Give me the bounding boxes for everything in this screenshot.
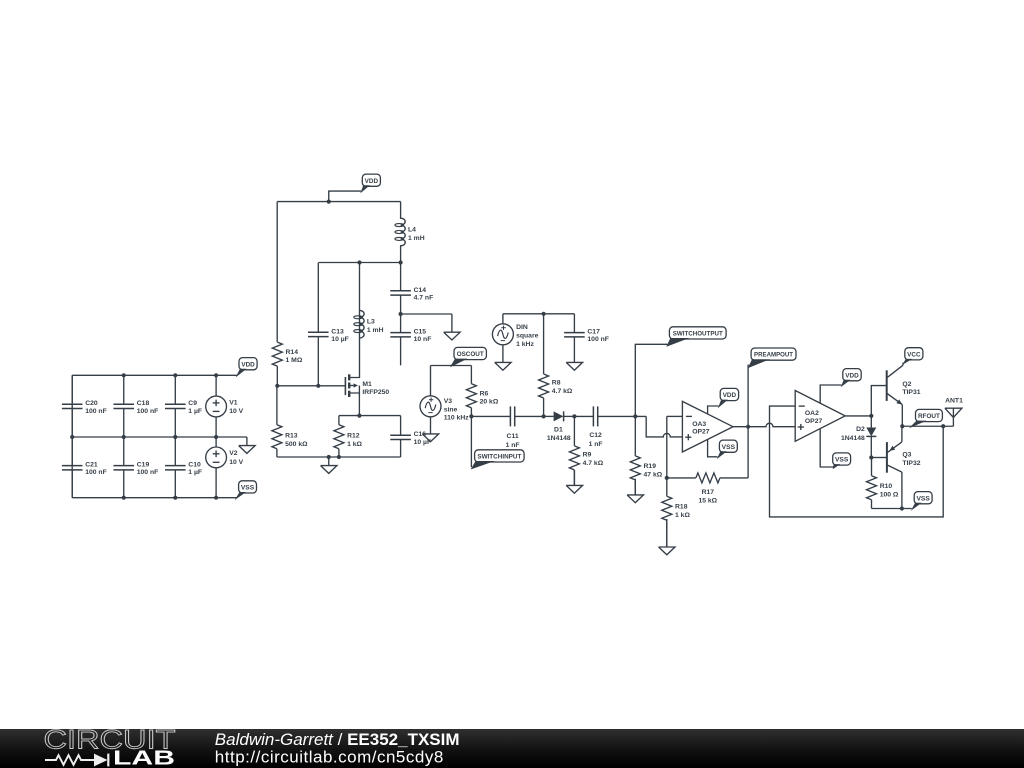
svg-text:VCC: VCC <box>907 351 920 358</box>
junction <box>173 373 177 377</box>
flag VSS at OA2 <box>833 453 851 469</box>
wire Q2 base net <box>871 386 886 416</box>
junction <box>327 200 331 204</box>
svg-text:VSS: VSS <box>916 495 930 502</box>
ground at supply mid rail <box>239 437 255 453</box>
wire OA3 minus input net <box>667 415 683 417</box>
capacitor C13 <box>308 263 349 386</box>
junction <box>337 455 341 459</box>
flag RFOUT <box>909 409 943 428</box>
ground at C17 <box>566 362 582 370</box>
flag VDD left <box>236 358 258 378</box>
svg-text:10 V: 10 V <box>229 459 243 466</box>
svg-text:DIN: DIN <box>516 324 528 331</box>
svg-text:C19: C19 <box>137 462 150 469</box>
ground at R19 <box>627 479 643 503</box>
svg-text:RFOUT: RFOUT <box>918 413 941 420</box>
junction <box>173 496 177 500</box>
svg-text:R10: R10 <box>880 483 893 490</box>
svg-text:R17: R17 <box>702 489 715 496</box>
wire VDD top rail of oscillator <box>277 201 400 203</box>
junction <box>357 414 361 418</box>
wire main line to OA3 plus input <box>646 416 682 437</box>
svg-text:10 nF: 10 nF <box>414 336 432 343</box>
junction <box>214 435 218 439</box>
voltage source V2 <box>206 447 244 468</box>
svg-text:100 nF: 100 nF <box>137 408 159 415</box>
svg-text:C13: C13 <box>331 328 344 335</box>
junction <box>399 312 403 316</box>
wire source rail <box>339 415 401 417</box>
resistor R19 <box>630 416 662 495</box>
voltage source DIN <box>492 324 538 348</box>
flag PREAMPOUT <box>748 348 796 368</box>
flag VSS left <box>235 481 257 500</box>
svg-text:D2: D2 <box>856 426 865 433</box>
wire M1 source to rail <box>358 393 360 416</box>
transistor Q2 TIP31 <box>887 363 921 405</box>
svg-text:V1: V1 <box>229 399 238 406</box>
wire VSS supply bottom rail <box>72 497 237 499</box>
wire oscillator bottom rail <box>277 456 401 458</box>
svg-text:100 Ω: 100 Ω <box>880 491 899 498</box>
svg-text:1 mH: 1 mH <box>367 327 384 334</box>
svg-text:OSCOUT: OSCOUT <box>457 351 485 358</box>
wire OSCOUT net <box>431 365 472 367</box>
svg-text:C17: C17 <box>587 329 600 336</box>
svg-text:4.7 kΩ: 4.7 kΩ <box>583 460 604 467</box>
svg-text:1 nF: 1 nF <box>506 442 520 449</box>
wire PREAMPOUT net <box>747 365 749 427</box>
junction <box>941 424 945 428</box>
CircuitLab logo resistor-diode glyph <box>45 754 108 767</box>
op-amp OA3 OP27 <box>682 401 733 452</box>
svg-text:1N4148: 1N4148 <box>547 435 571 442</box>
svg-text:TIP31: TIP31 <box>902 389 920 396</box>
junction <box>173 435 177 439</box>
svg-text:VDD: VDD <box>845 372 858 379</box>
svg-text:VSS: VSS <box>722 444 736 451</box>
wire OA3 VDD pin <box>708 406 719 414</box>
svg-text:100 nF: 100 nF <box>137 469 159 476</box>
wire output stage bottom rail <box>872 508 912 510</box>
flag VDD at OA3 <box>718 388 739 408</box>
junction <box>900 424 904 428</box>
svg-text:R18: R18 <box>675 503 688 510</box>
wire OA3 output line <box>733 423 795 427</box>
wire OA2 minus feedback net <box>770 406 944 517</box>
junction <box>327 455 331 459</box>
svg-text:OA2: OA2 <box>805 410 819 417</box>
voltage source V3 <box>420 396 469 422</box>
resistor R8 <box>539 314 573 417</box>
svg-text:R13: R13 <box>285 433 298 440</box>
svg-text:L4: L4 <box>408 226 416 233</box>
capacitor C17 <box>564 314 609 363</box>
capacitor C14 <box>390 263 433 315</box>
junction <box>70 435 74 439</box>
svg-text:IRFP250: IRFP250 <box>362 389 389 396</box>
svg-text:TIP32: TIP32 <box>902 460 920 467</box>
wire supply middle rail <box>72 436 247 438</box>
junction <box>542 414 546 418</box>
flag VDD oscillator <box>329 191 361 202</box>
svg-text:4.7 nF: 4.7 nF <box>414 294 434 301</box>
wire R14 column top <box>276 202 278 343</box>
junction <box>214 373 218 377</box>
svg-text:OA3: OA3 <box>692 421 706 428</box>
junction <box>900 506 904 510</box>
svg-text:100 nF: 100 nF <box>85 469 107 476</box>
svg-text:sine: sine <box>444 406 458 413</box>
svg-text:ANT1: ANT1 <box>945 398 963 405</box>
svg-text:LAB: LAB <box>113 748 175 768</box>
capacitor C21 <box>62 437 107 498</box>
svg-text:VDD: VDD <box>241 361 254 368</box>
svg-text:1 kHz: 1 kHz <box>516 341 534 348</box>
flag VSS at output stage <box>911 492 932 511</box>
svg-text:SWITCHOUTPUT: SWITCHOUTPUT <box>673 331 724 338</box>
svg-text:1 kΩ: 1 kΩ <box>347 441 362 448</box>
svg-text:15 kΩ: 15 kΩ <box>698 497 717 504</box>
capacitor C18 <box>113 375 158 437</box>
flag VCC at Q2 <box>902 348 923 365</box>
wire to oscillator ground <box>401 313 452 315</box>
svg-text:Q3: Q3 <box>902 452 911 459</box>
capacitor C11 <box>471 406 543 448</box>
junction <box>542 312 546 316</box>
flag OSCOUT <box>450 347 487 367</box>
svg-text:110 kHz: 110 kHz <box>444 415 470 422</box>
svg-text:4.7 kΩ: 4.7 kΩ <box>552 388 573 395</box>
junction <box>122 373 126 377</box>
capacitor C10 <box>165 437 202 498</box>
svg-text:1 µF: 1 µF <box>188 408 202 415</box>
junction <box>316 384 320 388</box>
junction <box>572 414 576 418</box>
svg-text:Q2: Q2 <box>902 381 911 388</box>
wire C20 column <box>71 375 73 497</box>
resistor R14 <box>272 342 303 386</box>
svg-text:C18: C18 <box>137 400 150 407</box>
svg-text:500 kΩ: 500 kΩ <box>285 441 308 448</box>
wire OA2 VSS pin <box>820 429 833 467</box>
flag VDD at OA2 <box>841 369 862 388</box>
svg-text:R8: R8 <box>552 380 561 387</box>
svg-text:SWITCHINPUT: SWITCHINPUT <box>477 454 522 461</box>
ground at R9 <box>566 470 582 493</box>
svg-text:C16: C16 <box>414 431 427 438</box>
junction <box>357 260 361 264</box>
svg-text:C15: C15 <box>414 329 427 336</box>
svg-text:VDD: VDD <box>365 178 378 185</box>
svg-text:R12: R12 <box>347 433 360 440</box>
junction <box>122 496 126 500</box>
flag VSS at OA3 <box>717 440 738 459</box>
junction <box>214 496 218 500</box>
svg-text:VSS: VSS <box>835 457 849 464</box>
svg-text:10 µF: 10 µF <box>331 336 349 343</box>
svg-text:C20: C20 <box>85 400 98 407</box>
ground at DIN <box>495 362 511 370</box>
junction <box>869 414 873 418</box>
wire SWITCHINPUT net <box>470 416 472 467</box>
junction <box>122 435 126 439</box>
svg-text:R9: R9 <box>583 451 592 458</box>
svg-text:M1: M1 <box>362 381 372 388</box>
svg-text:1 MΩ: 1 MΩ <box>286 357 303 364</box>
junction <box>275 384 279 388</box>
wire Q3 base net <box>871 457 887 459</box>
capacitor C19 <box>113 437 158 498</box>
resistor R18 <box>662 478 691 547</box>
inductor L3 <box>354 263 384 338</box>
svg-text:1 mH: 1 mH <box>408 235 425 242</box>
transistor Q3 TIP32 <box>887 442 921 473</box>
svg-text:PREAMPOUT: PREAMPOUT <box>754 352 794 359</box>
svg-text:47 kΩ: 47 kΩ <box>644 471 663 478</box>
ground at oscillator bottom <box>321 457 337 473</box>
resistor R13 <box>272 386 308 457</box>
wire RFOUT net <box>902 425 953 427</box>
voltage source V1 <box>206 396 244 417</box>
wire Q3 emitter to output <box>901 426 903 442</box>
svg-text:R14: R14 <box>286 349 299 356</box>
capacitor C16 <box>390 416 431 457</box>
svg-text:VSS: VSS <box>241 485 255 492</box>
svg-text:R19: R19 <box>644 463 657 470</box>
svg-text:V3: V3 <box>444 398 453 405</box>
inductor L4 <box>395 202 425 263</box>
wire Q3 collector down <box>901 472 903 508</box>
junction <box>746 425 750 429</box>
junction <box>633 414 637 418</box>
ground at V3 <box>422 434 438 442</box>
svg-text:OP27: OP27 <box>692 429 710 436</box>
svg-text:http://circuitlab.com/cn5cdy8: http://circuitlab.com/cn5cdy8 <box>215 747 444 766</box>
wire Q2 emitter to output <box>901 405 903 427</box>
svg-text:L3: L3 <box>367 319 375 326</box>
junction <box>399 260 403 264</box>
junction <box>665 476 669 480</box>
wire OA3 VSS pin <box>708 439 718 456</box>
svg-text:C10: C10 <box>188 462 201 469</box>
footer bar <box>0 729 1024 768</box>
svg-text:C14: C14 <box>414 287 427 294</box>
svg-text:1 nF: 1 nF <box>589 441 603 448</box>
op-amp OA2 OP27 <box>795 391 845 442</box>
svg-text:1 µF: 1 µF <box>188 469 202 476</box>
junction <box>869 455 873 459</box>
flag SWITCHINPUT <box>471 450 524 470</box>
diode D2 1N4148 <box>841 416 876 458</box>
resistor R12 <box>334 416 363 457</box>
wire R17 to OA3 output <box>747 427 749 478</box>
diode D1 1N4148 <box>544 411 575 442</box>
capacitor C20 <box>62 375 107 437</box>
resistor R6 <box>466 366 498 417</box>
wire VDD supply top rail <box>72 374 237 376</box>
svg-text:10 V: 10 V <box>229 408 243 415</box>
svg-text:D1: D1 <box>554 427 563 434</box>
svg-text:R6: R6 <box>480 390 489 397</box>
svg-text:C9: C9 <box>188 400 197 407</box>
svg-text:V2: V2 <box>229 450 238 457</box>
svg-text:20 kΩ: 20 kΩ <box>480 399 499 406</box>
svg-text:1N4148: 1N4148 <box>841 435 865 442</box>
transistor M1 IRFP250 <box>345 374 389 397</box>
svg-text:100 nF: 100 nF <box>85 408 107 415</box>
svg-text:Baldwin-Garrett / EE352_TXSIM: Baldwin-Garrett / EE352_TXSIM <box>215 730 460 749</box>
svg-text:C12: C12 <box>589 432 602 439</box>
wire L3/C13 rail <box>319 262 401 264</box>
resistor R17 <box>667 473 748 504</box>
wire OA2 output <box>845 415 871 417</box>
wire DIN rail <box>503 313 575 315</box>
svg-text:OP27: OP27 <box>805 418 823 425</box>
junction <box>469 414 473 418</box>
svg-text:square: square <box>516 332 539 339</box>
ground at C14/C15 node <box>444 314 460 340</box>
resistor R10 <box>867 458 899 509</box>
capacitor C12 <box>574 406 646 447</box>
resistor R9 <box>569 416 603 485</box>
svg-text:C11: C11 <box>507 433 519 440</box>
capacitor C15 <box>390 314 431 365</box>
antenna ANT1 <box>945 398 963 427</box>
wire OA2 VDD pin <box>820 385 841 403</box>
svg-text:C21: C21 <box>85 462 98 469</box>
capacitor C9 <box>165 375 202 437</box>
wire SWITCHOUTPUT net <box>635 344 667 416</box>
wire gate rail <box>277 385 345 387</box>
ground at R18 <box>659 519 675 555</box>
flag SWITCHOUTPUT <box>666 327 726 347</box>
svg-text:VDD: VDD <box>723 392 736 399</box>
svg-text:100 nF: 100 nF <box>587 336 609 343</box>
svg-text:1 kΩ: 1 kΩ <box>675 512 690 519</box>
